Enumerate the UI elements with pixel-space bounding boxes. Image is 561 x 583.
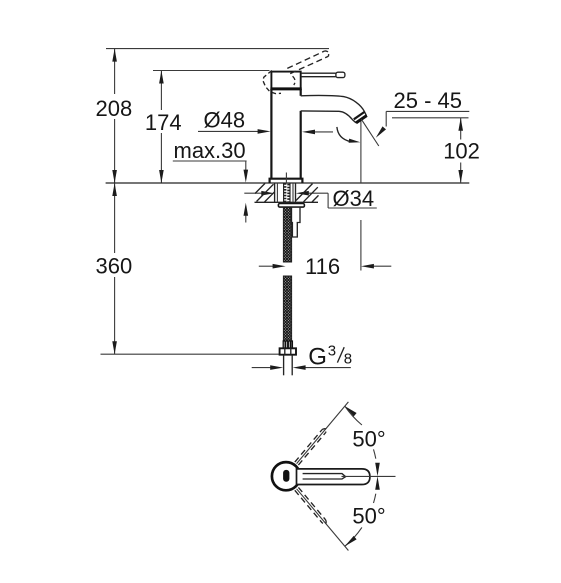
lever rod <box>301 73 336 77</box>
dim line 360 (vertical) <box>114 183 116 253</box>
dim 116 right arrow <box>361 264 374 269</box>
lever tip paddle <box>336 72 345 77</box>
dim line 208 (vertical) <box>114 49 116 94</box>
Ø34 right leader <box>308 192 328 194</box>
G3/8 left arrow <box>270 365 283 370</box>
max.30 underline <box>173 160 247 162</box>
topview handle centerline <box>342 475 396 477</box>
max.30 lower leader <box>245 215 247 223</box>
svg-text:50°: 50° <box>352 426 385 451</box>
upper 50deg ray <box>297 402 349 464</box>
svg-text:360: 360 <box>96 254 133 279</box>
cartridge block bottom bold <box>270 87 301 90</box>
svg-text:102: 102 <box>443 138 480 163</box>
shank outer walls <box>274 183 276 202</box>
threaded rod texture <box>284 183 290 202</box>
aerator extension line <box>360 119 362 183</box>
upper arc arrow at centerline <box>375 463 380 477</box>
lower dashed lever tip <box>322 520 326 524</box>
Ø34 right arrow <box>296 191 309 196</box>
max.30 upper leader <box>245 161 247 171</box>
upper dashed lever edge A <box>295 430 322 463</box>
topview lever inner wedge <box>303 474 346 479</box>
dashed raised lever lower edge <box>290 56 328 73</box>
dim 208 arrows <box>112 49 117 62</box>
flow arc arrow <box>349 139 361 143</box>
svg-text:max.30: max.30 <box>174 138 246 163</box>
connection tube <box>283 355 285 376</box>
upper 50deg arc segment <box>345 406 362 425</box>
dim line 102 <box>460 118 462 140</box>
G3/8 right arrow <box>293 365 306 370</box>
svg-text:Ø34: Ø34 <box>333 186 375 211</box>
Ø48 left arrow <box>258 129 271 134</box>
upper arc dash <box>374 449 376 458</box>
faucet body left side <box>270 89 272 179</box>
hose hex nut <box>280 348 296 354</box>
base flange <box>270 179 303 183</box>
svg-text:8: 8 <box>344 351 352 368</box>
aerator face inner <box>354 112 365 119</box>
25-45 leader vertical <box>385 111 387 126</box>
lower arc arrow at ray <box>345 536 357 546</box>
Ø48 right arrow <box>302 130 315 135</box>
svg-text:25 - 45: 25 - 45 <box>394 88 463 113</box>
dim 116 right segment <box>374 265 392 267</box>
washer <box>278 204 304 208</box>
upper arc arrow at ray <box>345 406 357 416</box>
svg-text:174: 174 <box>145 110 182 135</box>
upper dashed lever edge B <box>298 433 325 466</box>
lower dashed lever edge A <box>298 487 325 520</box>
lower arc dash <box>374 494 376 503</box>
dim 174 top extension line <box>153 70 270 72</box>
lower 50deg arc segment <box>345 527 362 546</box>
dashed raised lever upper edge <box>287 51 324 68</box>
deck hatching <box>255 183 319 202</box>
upper dashed lever tip <box>322 429 326 433</box>
svg-text:50°: 50° <box>352 503 385 528</box>
aerator face outer <box>356 116 367 123</box>
dim 174 arrows <box>159 71 164 84</box>
dashed rotated cartridge outline <box>263 71 281 94</box>
dim 208 top extension line <box>106 48 329 50</box>
dim 360 bottom extension line <box>101 353 280 355</box>
water stream line <box>361 119 379 146</box>
svg-text:Ø48: Ø48 <box>204 108 246 133</box>
deck bottom line <box>255 201 319 203</box>
Ø48 left leader+underline <box>198 130 259 132</box>
dashed raised lever tip cap <box>325 51 329 56</box>
G3/8 right leader <box>305 367 351 369</box>
mounting stud <box>291 207 300 237</box>
102 top extension line <box>392 117 469 119</box>
dashed pivot arc <box>293 76 295 85</box>
flow arc <box>337 127 351 142</box>
topview cartridge mark <box>283 470 289 482</box>
braided hose <box>283 207 291 341</box>
lower 50deg ray <box>297 489 349 551</box>
G3/8 left leader <box>252 367 271 369</box>
hose crimp ferrule <box>283 341 292 348</box>
25-45 underline <box>386 110 469 112</box>
Ø48 right leader <box>315 131 334 133</box>
label slash <box>337 347 344 362</box>
deck line <box>106 182 470 184</box>
lower arc arrow at centerline <box>375 476 380 490</box>
spout outline <box>301 95 367 122</box>
cartridge block <box>271 72 300 89</box>
body centerline <box>285 173 287 184</box>
shank inner walls <box>276 183 278 202</box>
svg-text:116: 116 <box>305 254 340 279</box>
svg-text:G: G <box>308 343 327 370</box>
dim 116 left segment <box>259 265 274 267</box>
Ø34 label hook <box>327 193 329 208</box>
25-45 leader arrow <box>376 126 386 137</box>
Ø34 left leader <box>244 192 262 194</box>
Ø34 left arrow <box>261 191 274 196</box>
dim 116 left arrow <box>273 264 286 269</box>
lower dashed lever edge B <box>295 490 322 523</box>
svg-text:208: 208 <box>96 96 133 121</box>
faucet body right side <box>300 89 302 96</box>
topview circle <box>272 462 300 490</box>
dim line 174 (vertical) <box>160 71 162 111</box>
svg-text:3: 3 <box>328 343 336 360</box>
dim 360 arrows <box>112 183 117 196</box>
max.30 down arrow <box>244 170 249 183</box>
topview handle <box>297 469 370 485</box>
max.30 up arrow <box>244 203 249 216</box>
dim 102 arrows <box>458 118 463 131</box>
